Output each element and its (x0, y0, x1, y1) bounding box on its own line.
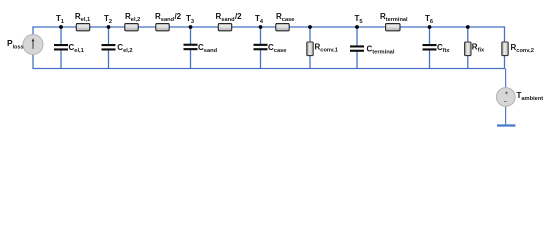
node T1 (59, 25, 63, 29)
wire branch Rconv1 (309, 27, 311, 69)
resistor R_conv,1 (307, 42, 313, 56)
resistor R_terminal (386, 24, 400, 31)
wire left source top segment (32, 26, 34, 35)
wire branch T1 (60, 27, 62, 44)
capacitor C_el,2 (102, 44, 116, 51)
capacitor C_case (254, 44, 268, 51)
wire branch T2 (108, 27, 110, 44)
resistor R_el,1 (76, 24, 89, 31)
resistor R_sand/2 second (218, 24, 231, 31)
resistor R_case (276, 24, 289, 31)
wire branch T5 (356, 27, 358, 46)
wire right edge vertical (504, 26, 506, 69)
node junction Rconv1 (308, 25, 312, 29)
ground bar (497, 124, 515, 126)
wire branch T6 (429, 27, 431, 44)
wire branch Rfix (467, 27, 469, 69)
wire bottom bus (33, 68, 505, 70)
wire top bus (33, 26, 505, 28)
wire Tambient to ground (505, 106, 507, 125)
capacitor C_el,1 (54, 44, 68, 51)
wire branch T4 (260, 27, 262, 44)
resistor R_el,2 (125, 24, 138, 31)
resistor R_fix (465, 42, 471, 56)
resistor R_conv,2 (502, 42, 508, 56)
node T3 (189, 25, 193, 29)
wire left source bottom segment (32, 54, 34, 69)
wire branch T3 (190, 27, 192, 44)
resistor R_sand/2 first (156, 24, 169, 31)
voltage source T_ambient (496, 88, 515, 107)
node junction Rfix (466, 25, 470, 29)
capacitor C_fix (423, 44, 437, 51)
capacitor C_sand (184, 44, 198, 50)
node T5 (355, 25, 359, 29)
node T4 (259, 25, 263, 29)
capacitor C_terminal (350, 45, 364, 51)
wire to Tambient source (505, 69, 507, 88)
node T6 (428, 25, 432, 29)
node T2 (107, 25, 111, 29)
current source P_loss (23, 35, 43, 55)
